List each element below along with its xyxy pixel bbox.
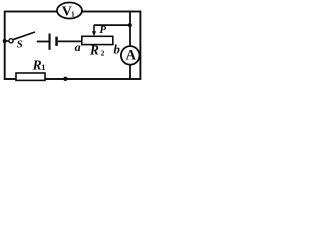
svg-text:2: 2 xyxy=(101,49,105,58)
svg-text:b: b xyxy=(113,42,120,57)
svg-text:P: P xyxy=(99,24,106,36)
svg-text:1: 1 xyxy=(41,62,45,72)
svg-text:R: R xyxy=(32,58,42,73)
svg-text:S: S xyxy=(17,39,23,51)
svg-text:R: R xyxy=(89,43,99,58)
svg-text:A: A xyxy=(125,48,136,64)
svg-text:a: a xyxy=(75,40,81,54)
svg-text:1: 1 xyxy=(71,9,75,18)
